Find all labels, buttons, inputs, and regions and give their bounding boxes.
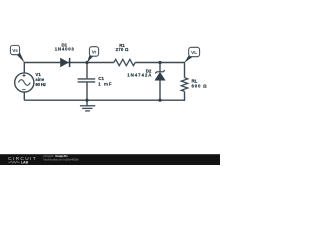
svg-text:johnpark :: johnpark :	[43, 154, 55, 158]
wire D2 vertical bottom	[159, 80, 161, 100]
node Vr	[87, 47, 99, 63]
svg-text:C1: C1	[98, 76, 104, 81]
wire RL vertical top	[184, 62, 186, 78]
svg-text:270 Ω: 270 Ω	[116, 47, 129, 52]
D1 value label	[55, 43, 75, 52]
junction ground	[85, 99, 88, 102]
wire left vertical top	[23, 62, 25, 73]
junction D2 top	[158, 61, 161, 64]
node Vs	[10, 45, 24, 63]
wire bottom rail	[24, 99, 184, 101]
svg-text:VL: VL	[191, 50, 197, 55]
svg-text:Vs: Vs	[12, 48, 18, 53]
wire top rail	[24, 62, 114, 64]
svg-text:Vr: Vr	[92, 49, 97, 54]
R1 value label	[116, 43, 129, 52]
wire C1 vertical bottom	[86, 82, 88, 100]
wire C1 vertical top	[86, 63, 88, 79]
C1 value label	[98, 76, 112, 86]
svg-text:600 Ω: 600 Ω	[192, 84, 208, 89]
zener diode D2	[155, 70, 165, 80]
node VL	[184, 47, 199, 63]
svg-text:LAB: LAB	[21, 161, 29, 165]
wire D2 vertical top	[159, 63, 161, 72]
svg-text:1N4742A: 1N4742A	[127, 73, 152, 78]
svg-text:Design Pro: Design Pro	[55, 154, 68, 158]
svg-text:http://circuitlab.com/c/q59zb4: http://circuitlab.com/c/q59zb48/3jbk	[44, 158, 80, 162]
logo resistor squiggle	[8, 161, 19, 164]
resistor RL	[181, 78, 187, 92]
V1 value label	[35, 72, 46, 87]
wire top rail right of resistor	[135, 62, 184, 64]
diode D1	[61, 58, 70, 67]
voltage source V1	[15, 73, 34, 92]
svg-text:1N4003: 1N4003	[55, 47, 75, 52]
svg-text:1 mF: 1 mF	[98, 81, 112, 86]
junction D2 bottom	[158, 99, 161, 102]
capacitor C1	[78, 79, 96, 82]
footer bar	[0, 154, 220, 165]
RL value label	[192, 78, 208, 88]
junction Vr top	[85, 61, 88, 64]
resistor R1	[114, 59, 135, 65]
wire RL vertical bottom	[184, 91, 186, 101]
D2 value label	[127, 68, 152, 77]
svg-text:60 Hz: 60 Hz	[35, 82, 46, 87]
ground	[80, 100, 95, 111]
wire left vertical bottom	[23, 92, 25, 100]
